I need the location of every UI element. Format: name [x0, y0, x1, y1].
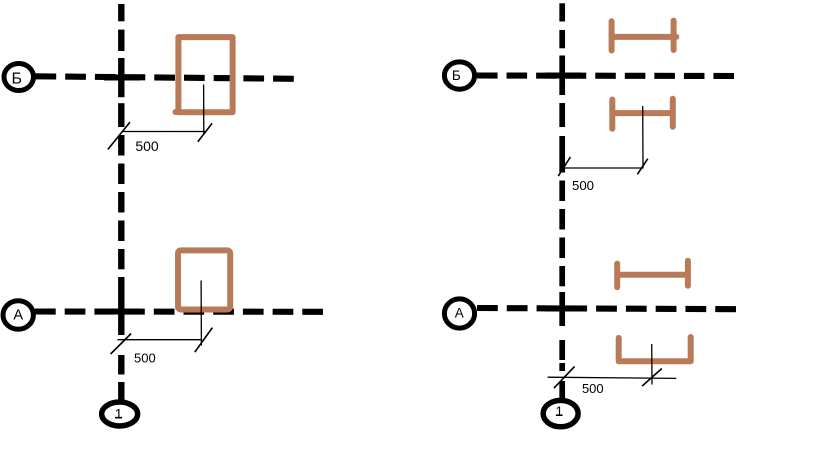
dimension line top-right	[563, 167, 643, 169]
junction axis1-right x axisБ-right	[545, 72, 581, 78]
node Б right circle	[444, 62, 474, 89]
channel section bottom-right lower	[619, 337, 691, 361]
corner nub of rectangle top-left	[176, 109, 179, 115]
extension line from rectangle top-left	[203, 85, 205, 135]
axis 1 right vertical dashed line (explicit dashes)	[559, 3, 565, 398]
I-beam section top-right lower	[612, 99, 673, 129]
tick right of dimension top-left	[198, 123, 212, 141]
node А right circle	[444, 299, 474, 328]
column section: square bottom-left	[178, 250, 230, 309]
tick right of dimension bottom-right	[642, 369, 662, 387]
node 1 right circle	[543, 400, 578, 426]
node Б left circle	[4, 64, 34, 91]
tick right of dimension bottom-left	[195, 328, 213, 353]
column section: rectangle top-left	[178, 37, 232, 112]
dimension line top-left	[122, 131, 206, 133]
junction axis1-left x axisБ-left	[104, 74, 140, 80]
tick right of dimension top-right	[637, 159, 647, 175]
extension line from channel bottom-right	[651, 344, 653, 385]
svg-text:500: 500	[135, 138, 159, 154]
tick left of dimension bottom-left	[111, 334, 132, 355]
svg-text:1: 1	[115, 406, 123, 421]
svg-text:А: А	[455, 306, 464, 321]
axis Б right horizontal dashed line	[477, 72, 734, 79]
node А left circle	[3, 301, 33, 330]
dimension line bottom-right	[548, 377, 677, 378]
axis А left horizontal dashed line	[35, 308, 323, 314]
I-beam section bottom-right upper	[617, 261, 688, 288]
axis Б left horizontal dashed line	[36, 76, 295, 79]
axis А right horizontal dashed line	[477, 308, 736, 309]
tick left of dimension top-left	[108, 122, 130, 149]
svg-text:Б: Б	[12, 70, 23, 87]
tick left of dimension bottom-right	[554, 366, 575, 388]
svg-text:500: 500	[572, 178, 594, 193]
svg-text:500: 500	[134, 350, 156, 365]
svg-text:1: 1	[556, 404, 564, 419]
dimension line bottom-left	[118, 339, 202, 341]
I-beam section top-right upper	[612, 21, 677, 51]
extension line from I-beam top-right	[642, 106, 644, 169]
tick left of dimension top-right	[558, 157, 570, 176]
junction axis1-left x axisА-left	[105, 308, 140, 314]
svg-text:500: 500	[582, 381, 604, 396]
axis 1 left vertical dashed line (explicit dashes)	[118, 4, 124, 400]
svg-text:А: А	[13, 307, 23, 323]
svg-text:Б: Б	[452, 68, 461, 83]
junction axis1-right x axisА-right	[545, 305, 581, 311]
extension line from square bottom-left	[200, 281, 202, 346]
node 1 left circle	[102, 402, 138, 426]
